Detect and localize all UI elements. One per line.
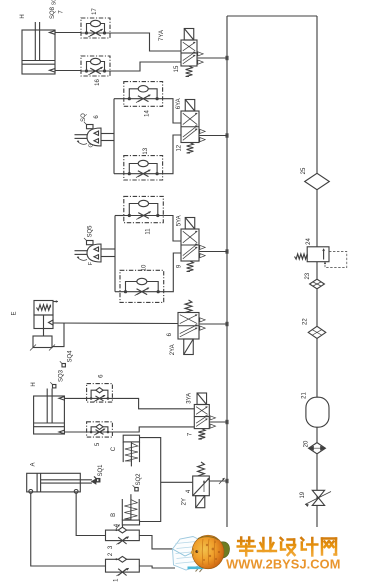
svg-text:E: E — [12, 311, 18, 315]
svg-text:2YA: 2YA — [170, 344, 176, 355]
svg-text:C: C — [111, 446, 117, 451]
svg-text:14: 14 — [145, 110, 151, 117]
svg-text:H: H — [20, 14, 26, 18]
svg-text:F: F — [88, 262, 94, 265]
svg-text:11: 11 — [145, 228, 151, 235]
svg-text:22: 22 — [302, 318, 308, 325]
svg-text:3YA: 3YA — [186, 393, 192, 404]
svg-text:15: 15 — [174, 65, 180, 72]
svg-text:19: 19 — [300, 491, 306, 498]
svg-text:SQ1: SQ1 — [98, 464, 104, 477]
svg-text:SQ: SQ — [81, 113, 87, 122]
svg-text:23: 23 — [305, 272, 311, 279]
svg-text:A: A — [31, 462, 37, 466]
svg-text:SQ4: SQ4 — [68, 350, 74, 363]
svg-text:12: 12 — [176, 144, 182, 151]
svg-text:16: 16 — [95, 79, 101, 86]
svg-text:G: G — [88, 143, 94, 147]
svg-text:5YA: 5YA — [176, 215, 182, 226]
svg-text:25: 25 — [301, 167, 307, 174]
svg-text:B: B — [111, 513, 117, 517]
svg-text:17: 17 — [92, 8, 98, 15]
svg-text:SQ: SQ — [51, 0, 57, 5]
svg-text:7YA: 7YA — [159, 30, 165, 41]
svg-text:H: H — [31, 382, 37, 386]
svg-text:20: 20 — [304, 440, 310, 447]
svg-text:24: 24 — [306, 238, 312, 245]
svg-text:13: 13 — [143, 147, 149, 154]
svg-text:SQ5: SQ5 — [88, 225, 94, 238]
svg-text:SQ8: SQ8 — [50, 6, 56, 19]
svg-text:SQ2: SQ2 — [136, 473, 142, 486]
svg-text:SQ3: SQ3 — [58, 369, 64, 382]
svg-text:WWW.2BYSJ.COM: WWW.2BYSJ.COM — [226, 557, 340, 572]
svg-text:6YA: 6YA — [176, 98, 182, 109]
svg-text:2Y: 2Y — [181, 498, 187, 505]
svg-text:21: 21 — [302, 392, 308, 399]
svg-text:10: 10 — [141, 264, 147, 271]
